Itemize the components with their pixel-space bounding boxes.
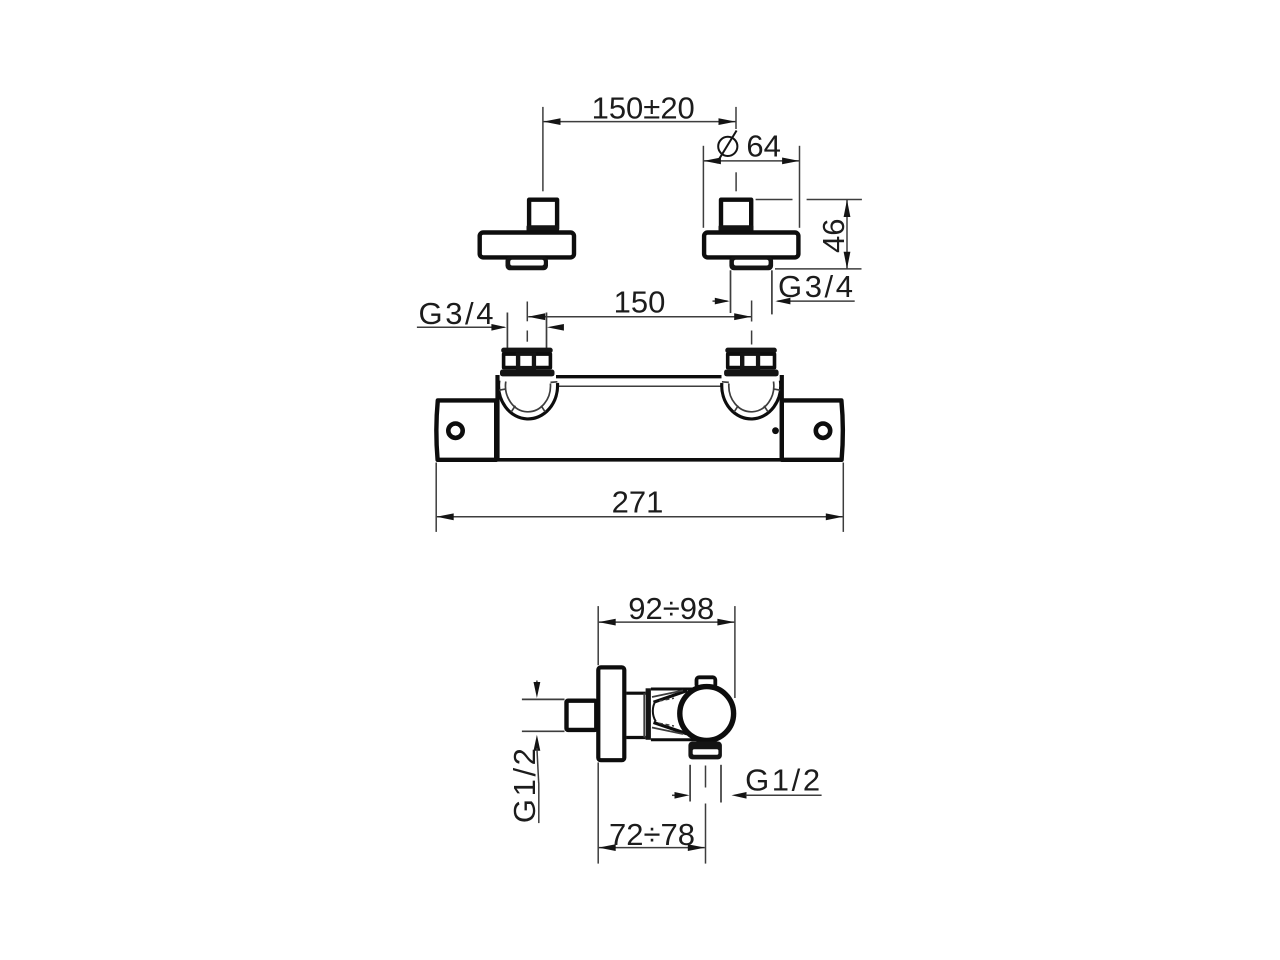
- dim 92÷98 extension line right: [734, 606, 736, 698]
- neck lines: [626, 692, 645, 695]
- right saddle: [722, 381, 781, 419]
- dim 150 arrow right: [734, 313, 751, 320]
- dim 150 arrow left: [528, 313, 545, 320]
- dim 46 arrow bottom: [844, 252, 851, 269]
- housing top edge: [651, 688, 696, 691]
- dim 92÷98 extension line left upper: [597, 606, 599, 665]
- dim 271 extension line right: [842, 463, 844, 532]
- dim 271 dimension line: [437, 516, 843, 518]
- svg-text:92÷98: 92÷98: [628, 591, 714, 626]
- cone dashed edges: [659, 698, 674, 701]
- svg-text:46: 46: [816, 219, 851, 253]
- outlet stub: [688, 742, 722, 760]
- right nut body: [728, 354, 775, 368]
- left wall union square nipple: [529, 200, 557, 229]
- mixer body barrel: [556, 375, 722, 378]
- side nipple: [567, 701, 597, 730]
- cone lower silhouette: [654, 723, 688, 734]
- wall flange disc: [598, 667, 624, 760]
- right nut cap: [725, 348, 777, 353]
- dim 150±20 arrow right: [719, 118, 736, 125]
- dim 46 arrow top: [844, 200, 851, 217]
- dim 150±20 extension line left: [542, 107, 544, 191]
- knob circle: [680, 687, 734, 741]
- right union centre dash: [735, 172, 737, 191]
- dim ∅64 extension line right: [799, 146, 801, 228]
- dim 46 extension line bottom: [775, 268, 862, 270]
- left wall union washer: [506, 257, 549, 271]
- dim 46 extension line top: [756, 199, 793, 201]
- right nut washer: [724, 370, 779, 377]
- mixer left screw hole: [448, 424, 462, 438]
- mixer left ear: [436, 400, 496, 459]
- svg-text:271: 271: [612, 485, 664, 520]
- svg-text:G3/4: G3/4: [419, 296, 497, 331]
- svg-text:150±20: 150±20: [592, 91, 695, 126]
- svg-text:64: 64: [746, 129, 780, 164]
- label G3/4 right leader with arrow: [778, 300, 855, 302]
- dim ∅64 arrow right: [782, 158, 799, 165]
- left nut washer: [500, 370, 555, 377]
- label G1/2 left underline: [538, 783, 540, 823]
- cartridge housing bar: [646, 688, 651, 740]
- dim ∅64 extension line left: [702, 146, 704, 228]
- right wall union collar bar: [719, 225, 754, 231]
- mixer right screw hole: [816, 424, 830, 438]
- mixer body inner line: [558, 385, 721, 387]
- housing bottom edge: [651, 738, 700, 741]
- cone mouth arc: [653, 701, 656, 722]
- dim ∅64 arrow left: [704, 158, 721, 165]
- mixer body bottom edge: [438, 458, 843, 462]
- left nut cap: [501, 348, 553, 353]
- right wall union flange: [704, 233, 798, 258]
- left wall union collar bar: [527, 225, 560, 231]
- dim 271 arrow right: [826, 513, 843, 520]
- svg-text:G1/2: G1/2: [745, 763, 823, 798]
- dim 150±20 arrow left: [543, 118, 560, 125]
- label G3/4 left underline with arrow: [417, 326, 505, 328]
- cone upper silhouette: [654, 691, 688, 703]
- outlet pipe centre line: [705, 766, 707, 788]
- left nut body: [504, 354, 551, 368]
- right inlet pipe walls: [730, 270, 732, 313]
- left saddle: [499, 381, 558, 419]
- dim 72÷78 arrow right: [688, 844, 705, 851]
- dim 150±20 dimension line: [544, 121, 736, 123]
- dim 92÷98 arrow right: [717, 619, 734, 626]
- left wall union flange: [480, 233, 574, 258]
- label G3/4 right leader arrow left: [713, 300, 728, 302]
- svg-text:G1/2: G1/2: [507, 745, 542, 823]
- wall pipe stub lines: [522, 698, 565, 700]
- dim 92÷98 extension line left lower: [597, 762, 599, 863]
- svg-text:G3/4: G3/4: [778, 269, 856, 304]
- dim ∅64 diameter symbol: [718, 137, 737, 156]
- right wall union square nipple: [721, 200, 751, 229]
- mixer small dot: [772, 427, 779, 434]
- outlet pipe walls: [689, 765, 691, 802]
- knob top tab: [697, 677, 716, 687]
- svg-text:150: 150: [614, 285, 666, 320]
- dim 150±20 extension line right: [735, 107, 737, 129]
- dim 150 dimension line: [528, 316, 751, 318]
- dim G1/2 left arrow top: [536, 681, 538, 685]
- mixer right ear: [782, 400, 843, 459]
- dim 46 dimension line: [846, 200, 848, 269]
- dim 92÷98 arrow left: [599, 619, 616, 626]
- dim 271 extension line left: [435, 463, 437, 532]
- left inlet centre line: [526, 302, 528, 322]
- svg-text:72÷78: 72÷78: [609, 817, 695, 852]
- dim G1/2 left arrow bottom: [534, 735, 541, 751]
- dim 72÷78 dimension line: [599, 847, 705, 849]
- dim G1/2 right arrow right with tail: [732, 792, 747, 799]
- right inlet centre line: [751, 301, 753, 322]
- right wall union washer: [729, 257, 773, 271]
- label G3/4 left opposite arrow: [547, 324, 564, 331]
- dim 271 arrow left: [437, 513, 454, 520]
- left inlet pipe walls: [506, 313, 508, 349]
- dim 92÷98 dimension line: [599, 621, 735, 623]
- dim ∅64 dimension line: [704, 160, 799, 162]
- dim 72÷78 arrow left: [599, 844, 616, 851]
- dim G1/2 right arrow left: [672, 794, 675, 796]
